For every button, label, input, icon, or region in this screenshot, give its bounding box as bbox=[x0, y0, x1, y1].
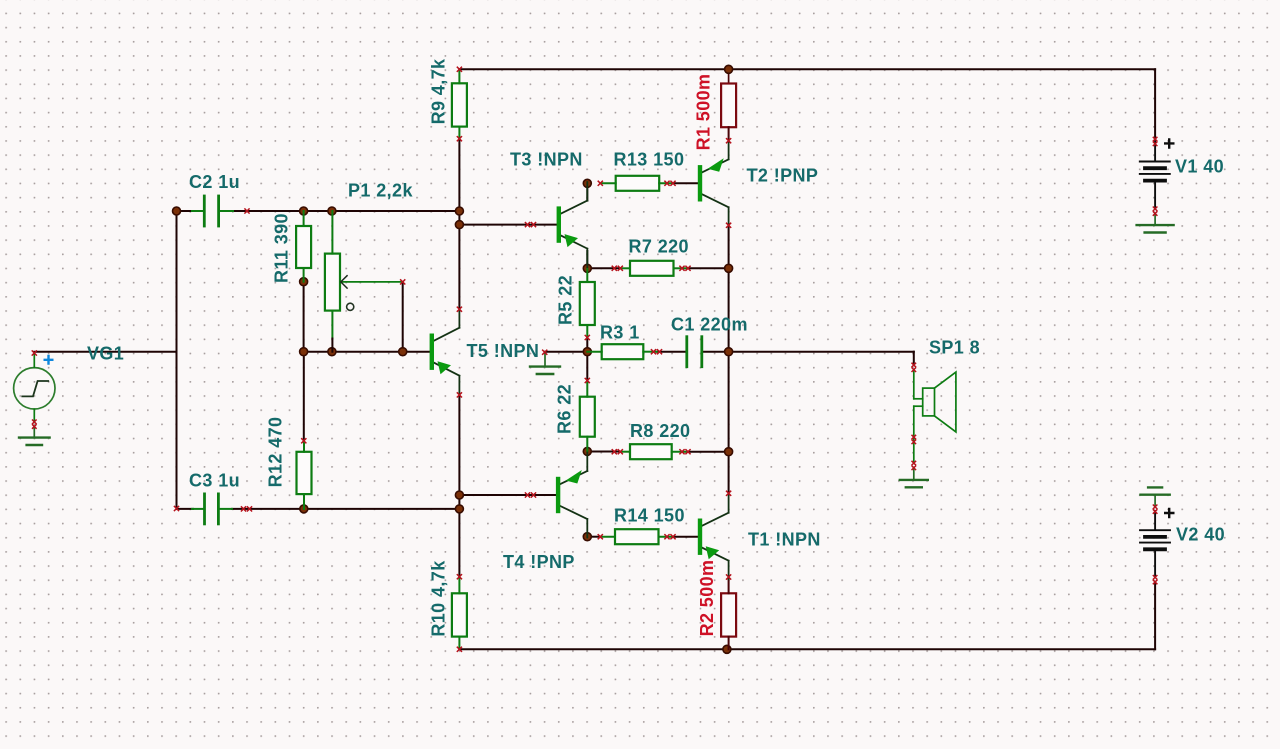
wire R14 right to T1 base bbox=[673, 536, 698, 538]
pin ticks VG1 bottom bbox=[32, 420, 37, 425]
pin tick ground mid bbox=[542, 350, 547, 355]
resistor R14 bbox=[615, 529, 659, 544]
pin ticks SP1 bottom bbox=[912, 461, 917, 466]
node R11 top bbox=[300, 207, 308, 215]
resistor R10 bbox=[452, 593, 467, 636]
pin tick P1 wiper bbox=[400, 279, 405, 284]
svg-text:T5 !NPN: T5 !NPN bbox=[467, 341, 540, 361]
svg-text:R12 470: R12 470 bbox=[266, 417, 286, 488]
node T4 collector R14 bbox=[583, 533, 591, 541]
node R3 R5 R6 junction bbox=[583, 348, 591, 356]
node R9 column row2 bbox=[455, 221, 463, 229]
wire C2 left lead bbox=[177, 210, 205, 212]
wire R13 right to T2 base bbox=[673, 182, 698, 184]
wire R8 node to T1 collector bbox=[728, 452, 730, 494]
battery V2 bbox=[1154, 495, 1156, 507]
node mid row P1 bbox=[328, 348, 336, 356]
pin tick R10 bottom bbox=[457, 647, 462, 652]
node input C2 corner bbox=[173, 207, 181, 215]
pin ticks R8 right bbox=[679, 449, 684, 454]
svg-text:V1 40: V1 40 bbox=[1175, 157, 1224, 177]
resistor R11 bbox=[296, 226, 311, 268]
wire T3 base row bbox=[459, 224, 556, 226]
pin ticks R3 right C1 left bbox=[651, 349, 656, 354]
pin ticks C3 right bbox=[241, 506, 246, 511]
node mid row wiper bbox=[399, 348, 407, 356]
wire T3 emitter node to R7 bbox=[586, 251, 588, 268]
pin tick R9 bottom bbox=[457, 136, 462, 141]
wire C1 right lead to node bbox=[702, 351, 729, 353]
wire ground node to R-junction bbox=[545, 351, 588, 353]
wire R1 top node bbox=[728, 69, 730, 83]
pin tick T5 collector bbox=[457, 307, 462, 312]
svg-text:P1 2,2k: P1 2,2k bbox=[348, 181, 413, 201]
ground mid bbox=[530, 365, 560, 367]
ground V1 bbox=[1137, 224, 1174, 226]
pin ticks V2 top bbox=[1153, 505, 1158, 510]
svg-text:T2 !PNP: T2 !PNP bbox=[747, 166, 819, 186]
pin ticks V1 top bbox=[1153, 137, 1158, 142]
resistor R7 bbox=[630, 261, 674, 276]
voltage generator VG1 bbox=[14, 368, 55, 409]
pin ticks R14 right bbox=[664, 534, 669, 539]
pin ticks R7 right bbox=[679, 266, 684, 271]
wire R7 right to right column bbox=[687, 267, 729, 269]
node bottom rail R2 bbox=[723, 645, 731, 653]
wire VG1 to input node bbox=[34, 351, 176, 353]
pin ticks T4 base bbox=[525, 492, 530, 497]
wire V2 bottom lead bbox=[1154, 582, 1156, 649]
wire mid junction to R6 bbox=[586, 352, 588, 383]
resistor R3 bbox=[602, 344, 644, 359]
svg-text:R9 4,7k: R9 4,7k bbox=[429, 58, 449, 124]
resistor R1 bbox=[721, 84, 736, 128]
pin ticks R7 left bbox=[612, 266, 617, 271]
transistor T1 bbox=[702, 513, 728, 526]
wire T4 collector node to R14 bbox=[587, 536, 600, 538]
node R12 bottom C3 bbox=[300, 505, 308, 513]
resistor R8 bbox=[630, 444, 672, 459]
wire left vertical C2-C3 bbox=[176, 211, 178, 508]
pin tick T2 collector bbox=[726, 223, 731, 228]
resistor R2 bbox=[721, 593, 736, 636]
wire T4 base row bbox=[459, 494, 556, 496]
pin tick R6 top bbox=[585, 378, 590, 383]
svg-text:C1 220m: C1 220m bbox=[671, 315, 748, 335]
ground V2 bbox=[1148, 486, 1162, 488]
svg-text:R1 500m: R1 500m bbox=[694, 74, 714, 151]
wire R7 left lead wire bbox=[587, 267, 620, 269]
svg-text:R3 1: R3 1 bbox=[600, 322, 640, 342]
pin tick R10 top bbox=[457, 574, 462, 579]
wire R8 left lead wire bbox=[587, 451, 620, 453]
svg-text:R8 220: R8 220 bbox=[630, 421, 690, 441]
pin tick R13 left bbox=[598, 181, 603, 186]
resistor R9 bbox=[452, 83, 467, 126]
node top rail R1 bbox=[725, 65, 733, 73]
pin tick C3 left bbox=[174, 506, 179, 511]
wire T5 emitter to R10 bbox=[458, 395, 460, 577]
svg-text:R2 500m: R2 500m bbox=[697, 560, 717, 637]
P1 open terminal mark bbox=[347, 303, 354, 310]
wire right column R7-C1 bbox=[728, 268, 730, 351]
pin tick R1 bottom bbox=[726, 138, 731, 143]
VG1 plus sign bbox=[44, 355, 54, 365]
transistor T5 bbox=[434, 328, 459, 341]
wire R3 right to C1 bbox=[657, 351, 687, 353]
V2 plus sign bbox=[1164, 508, 1175, 519]
wire C3 left lead from corner bbox=[177, 508, 194, 510]
pin tick T5 emitter bbox=[457, 392, 462, 397]
pin tick R9 top bbox=[457, 67, 462, 72]
svg-text:T1 !NPN: T1 !NPN bbox=[748, 530, 821, 550]
svg-text:R6 22: R6 22 bbox=[555, 384, 575, 434]
node mid row R11 bbox=[300, 348, 308, 356]
node P1 top bbox=[328, 207, 336, 215]
wire R9 bottom to T5 collector bbox=[458, 139, 460, 310]
pin tick R12 top bbox=[301, 438, 306, 443]
node R8 T1 collector bbox=[725, 448, 733, 456]
wire R5 bottom to mid junction bbox=[586, 338, 588, 352]
battery V1 bbox=[1154, 139, 1156, 161]
wire bottom rail R10 to V2 bbox=[459, 648, 1155, 650]
capacitor C2 bbox=[203, 196, 206, 226]
wire right column C1-R8 bbox=[728, 352, 730, 452]
wire T3 collector to R13 node bbox=[586, 183, 588, 200]
speaker SP1 bbox=[913, 370, 915, 399]
wire V1 top lead bbox=[1154, 69, 1156, 139]
svg-text:R11 390: R11 390 bbox=[272, 213, 292, 283]
wire R11 bottom to mid row bbox=[303, 282, 305, 352]
svg-text:C3 1u: C3 1u bbox=[189, 471, 240, 491]
svg-text:VG1: VG1 bbox=[87, 344, 124, 364]
node T3 emitter R7 bbox=[583, 264, 591, 272]
potentiometer P1 bbox=[325, 254, 340, 311]
transistor T2 bbox=[702, 159, 728, 172]
capacitor C3 bbox=[203, 494, 206, 524]
wire C3 right to T4 base column bbox=[232, 508, 459, 510]
pin ticks T3 base bbox=[525, 222, 530, 227]
P1 wiper arm bbox=[342, 281, 403, 283]
wire R12 top bbox=[303, 352, 305, 441]
transistor T4 bbox=[560, 471, 587, 484]
svg-text:R14 150: R14 150 bbox=[614, 506, 685, 526]
node T3 collector R13 bbox=[583, 179, 591, 187]
resistor R12 bbox=[297, 452, 312, 494]
svg-text:C2 1u: C2 1u bbox=[189, 172, 240, 192]
pin tick T1 emitter bbox=[726, 574, 731, 579]
ground VG1 bbox=[19, 436, 50, 438]
V1 plus sign bbox=[1164, 138, 1175, 149]
node R6 R8 T4 emitter bbox=[583, 447, 591, 455]
svg-text:R7 220: R7 220 bbox=[629, 237, 689, 257]
pin tick C2 right bbox=[244, 208, 249, 213]
pin ticks SP1 top bbox=[912, 363, 917, 368]
pin ticks R8 left bbox=[612, 449, 617, 454]
resistor R13 bbox=[616, 176, 660, 191]
svg-text:T4 !PNP: T4 !PNP bbox=[503, 552, 575, 572]
pin ticks V2 bottom bbox=[1153, 575, 1158, 580]
svg-text:R5 22: R5 22 bbox=[556, 275, 576, 325]
pin tick R5 bottom bbox=[585, 335, 590, 340]
ground SP1 bbox=[900, 479, 928, 481]
wire R8 right to T1 collector column bbox=[687, 451, 729, 453]
capacitor C1 bbox=[685, 337, 688, 367]
wire T2 collector down to R7 node bbox=[728, 225, 730, 268]
node R11 bottom bbox=[300, 278, 308, 286]
svg-text:V2 40: V2 40 bbox=[1176, 525, 1225, 545]
svg-text:R10 4,7k: R10 4,7k bbox=[429, 560, 449, 637]
pin tick T1 collector bbox=[726, 491, 731, 496]
node C3 column bbox=[455, 505, 463, 513]
wire speaker drop bbox=[913, 352, 915, 365]
node R7 right bbox=[725, 264, 733, 272]
svg-text:SP1 8: SP1 8 bbox=[929, 338, 980, 358]
pin tick VG1 top bbox=[32, 350, 37, 355]
resistor R6 bbox=[580, 397, 595, 437]
pin tick R14 left bbox=[598, 534, 603, 539]
wire output to speaker bbox=[729, 351, 914, 353]
node T4 base bbox=[455, 491, 463, 499]
node R9 column row1 bbox=[455, 207, 463, 215]
pin ticks SP1 mid bbox=[912, 435, 917, 440]
node output C1 bbox=[725, 348, 733, 356]
pin ticks V1 bottom bbox=[1153, 207, 1158, 212]
wire mid ground stub bbox=[544, 352, 546, 367]
wire P1 wiper down bbox=[402, 282, 404, 352]
wire top rail from R9 to V1 bbox=[459, 68, 1155, 70]
svg-text:R13 150: R13 150 bbox=[614, 150, 685, 170]
transistor T3 bbox=[561, 201, 587, 214]
wire C2 right to R9 column bbox=[219, 210, 460, 212]
resistor R5 bbox=[580, 282, 595, 325]
svg-text:T3 !NPN: T3 !NPN bbox=[510, 150, 583, 170]
pin ticks R13 right bbox=[664, 181, 669, 186]
wire mid row under pot bbox=[304, 351, 430, 353]
